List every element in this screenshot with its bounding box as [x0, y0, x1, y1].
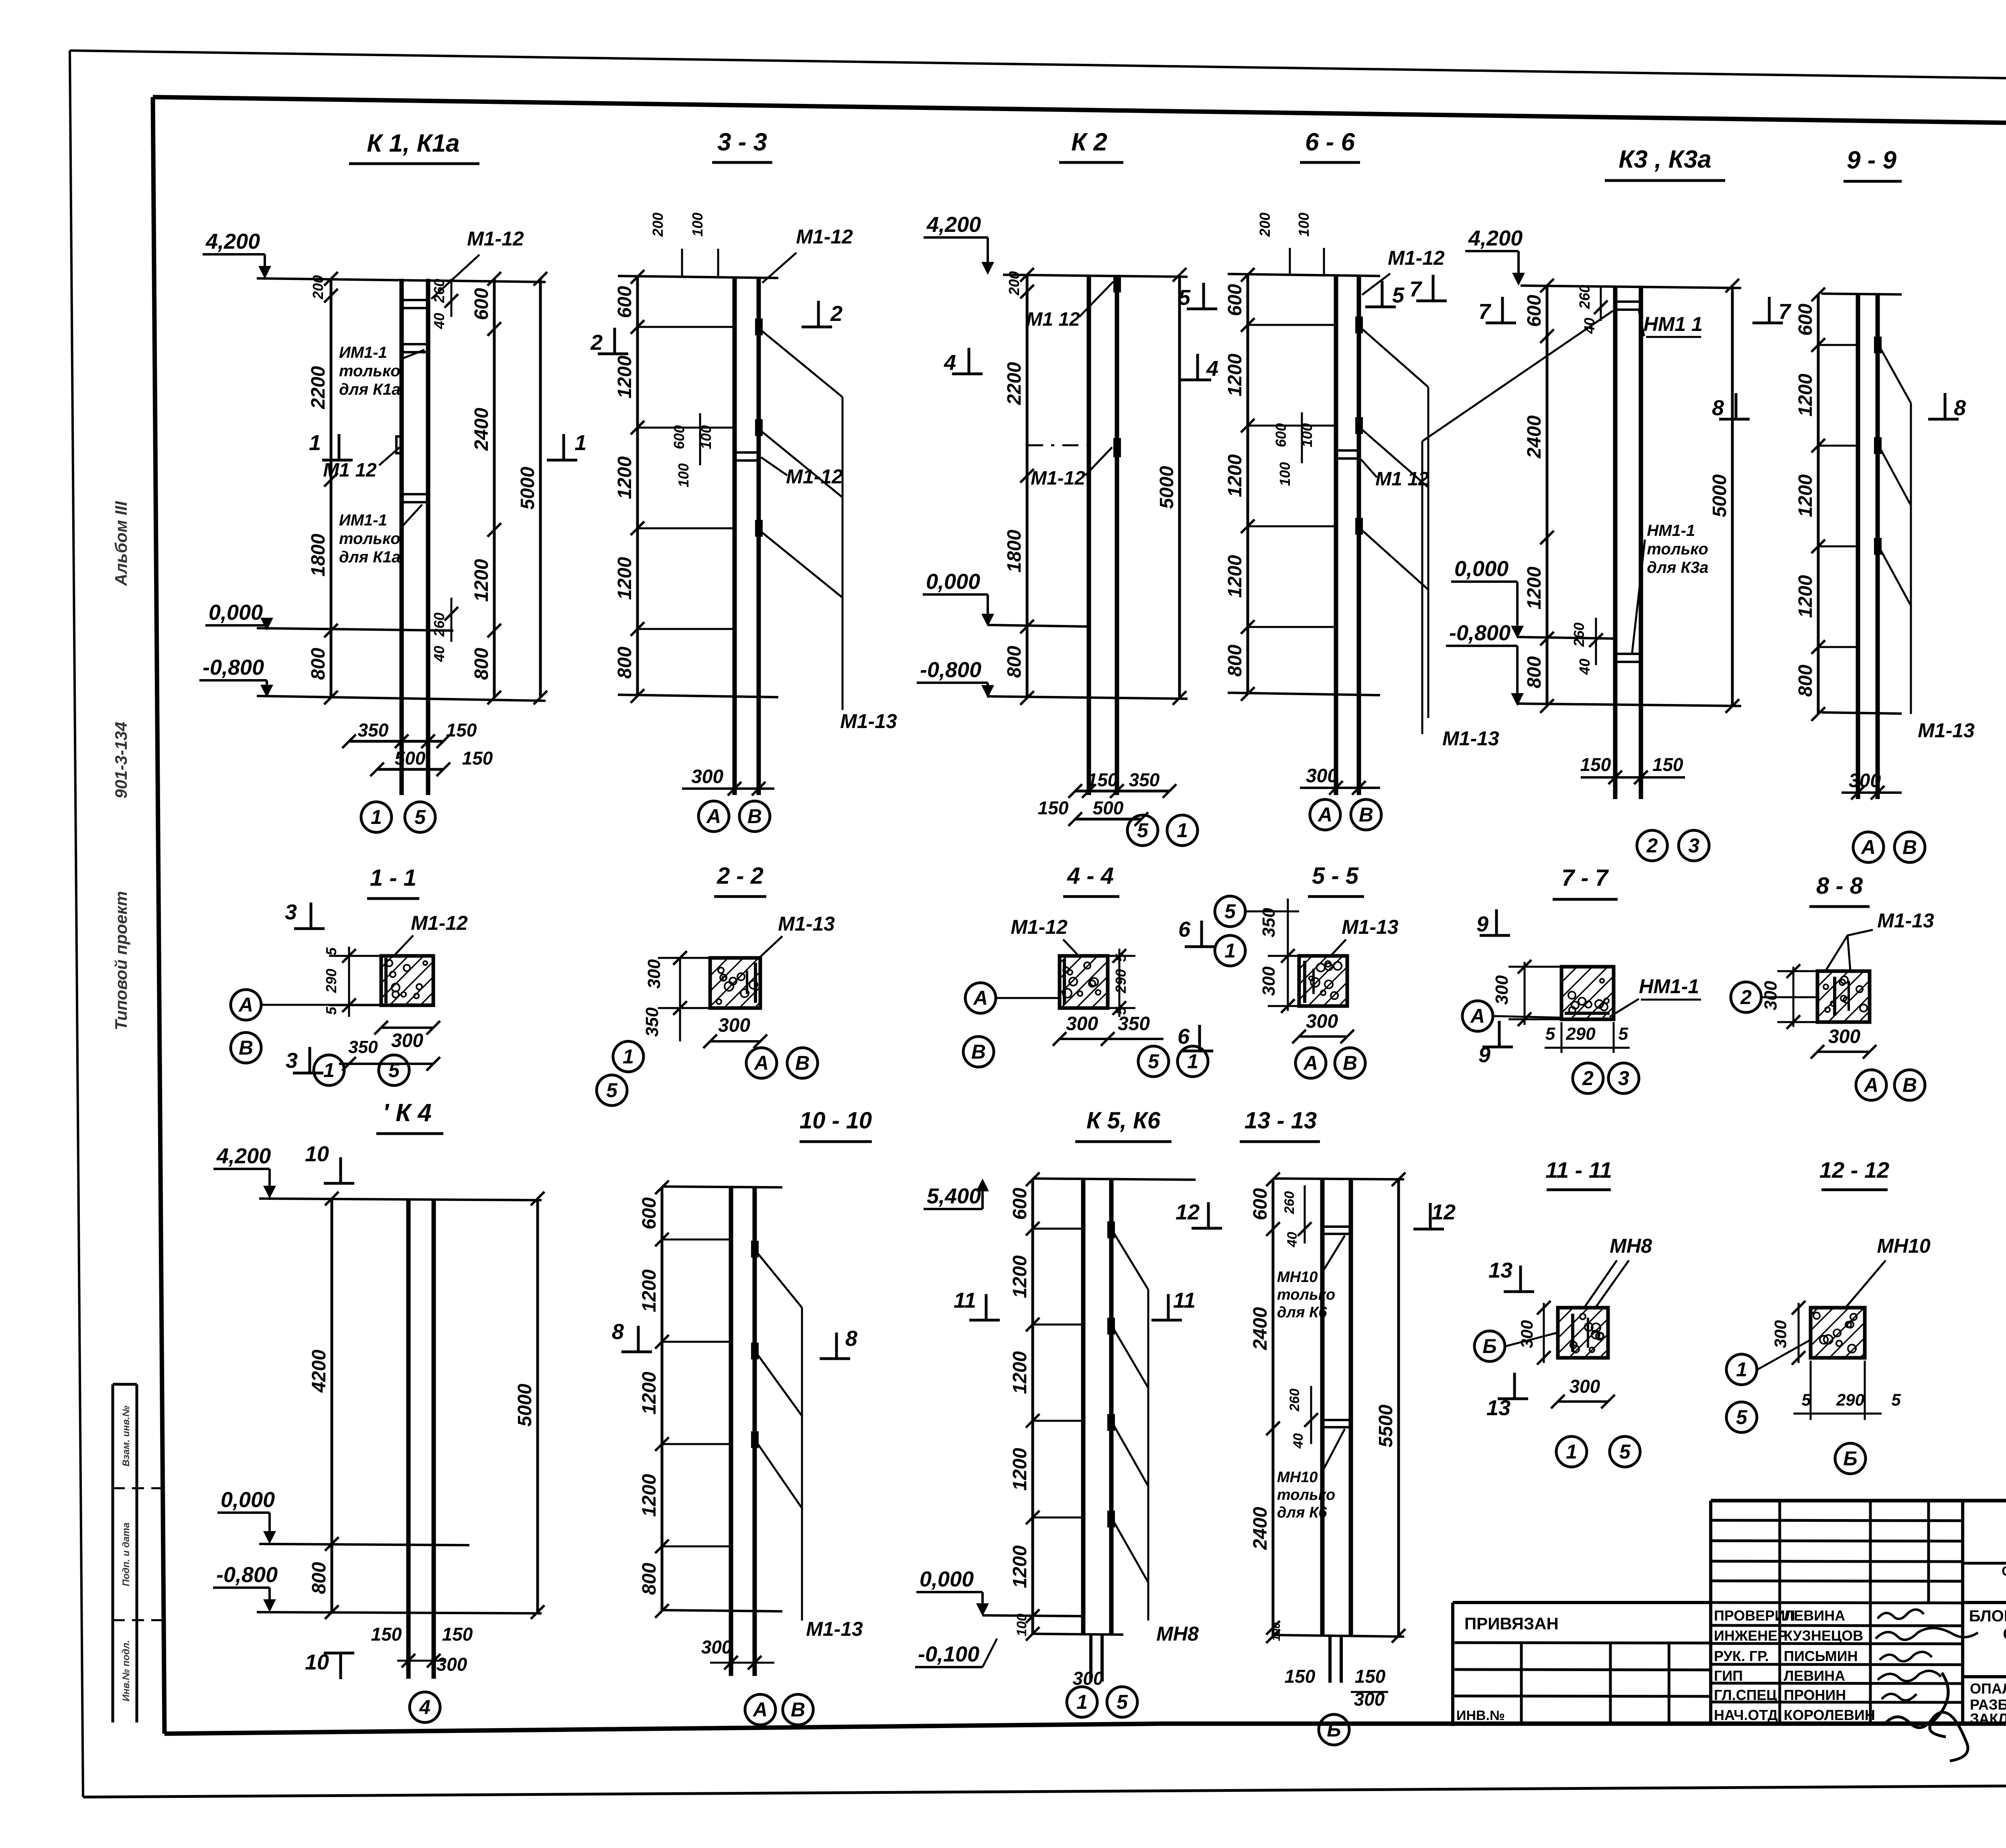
level line 0.000 — [1517, 637, 1615, 639]
svg-text:2: 2 — [1646, 834, 1658, 857]
svg-text:ПИСЬМИН: ПИСЬМИН — [1784, 1648, 1858, 1664]
axis circle B — [787, 1048, 818, 1078]
svg-text:1: 1 — [323, 1059, 335, 1081]
svg-text:3: 3 — [286, 1049, 298, 1073]
svg-text:Б: Б — [1327, 1718, 1341, 1741]
svg-text:ИМ1-1: ИМ1-1 — [339, 344, 387, 361]
left dimension line 13-13 — [1272, 1179, 1275, 1636]
left dimension line 3-3 — [636, 277, 639, 696]
svg-text:100: 100 — [1295, 213, 1312, 237]
axis circle B — [783, 1694, 813, 1725]
svg-text:-0,800: -0,800 — [203, 655, 264, 680]
svg-text:0,000: 0,000 — [209, 600, 263, 625]
svg-text:300: 300 — [718, 1015, 750, 1036]
svg-text:150: 150 — [1087, 769, 1118, 790]
svg-text:2400: 2400 — [471, 408, 492, 451]
level tie lines — [1033, 1228, 1083, 1230]
svg-text:600: 600 — [1250, 1188, 1271, 1220]
svg-text:12: 12 — [1431, 1200, 1456, 1224]
svg-text:200: 200 — [310, 275, 326, 300]
svg-text:260: 260 — [1282, 1191, 1297, 1215]
svg-text:2: 2 — [1582, 1067, 1594, 1089]
svg-text:600: 600 — [471, 288, 492, 320]
svg-text:КУЗНЕЦОВ: КУЗНЕЦОВ — [1784, 1627, 1863, 1644]
svg-text:-0,800: -0,800 — [1449, 621, 1511, 645]
svg-text:1800: 1800 — [1004, 529, 1025, 572]
bottom line — [1273, 1635, 1404, 1637]
svg-text:ИМ1-1: ИМ1-1 — [339, 511, 387, 529]
svg-text:М1-12: М1-12 — [786, 465, 843, 488]
axis circle 1 top — [1215, 935, 1245, 966]
svg-text:100: 100 — [689, 213, 706, 237]
svg-text:1200: 1200 — [614, 456, 636, 499]
plate MN10 top — [1322, 1225, 1351, 1228]
plate bracket on right face — [754, 963, 757, 1003]
svg-text:350: 350 — [1259, 908, 1279, 937]
project attribution block — [1451, 1603, 1454, 1726]
svg-text:12: 12 — [1176, 1200, 1200, 1224]
middle plate and small dims — [1336, 449, 1359, 452]
svg-text:НМ1-1: НМ1-1 — [1639, 975, 1699, 998]
svg-text:300: 300 — [391, 1030, 423, 1051]
left dimension line K2 — [1026, 275, 1029, 698]
axis circle B(cyr) — [1319, 1714, 1349, 1745]
axis circle 1 — [1556, 1436, 1587, 1467]
bottom line -0.800 — [257, 696, 546, 701]
svg-text:8 - 8: 8 - 8 — [1816, 873, 1863, 899]
middle plate and small dims — [735, 451, 759, 454]
axis circle 5 top — [1215, 896, 1245, 927]
svg-text:10: 10 — [305, 1142, 329, 1166]
svg-text:для К6: для К6 — [1277, 1504, 1327, 1521]
bottom line — [1821, 712, 1902, 714]
bottom dim 300 — [381, 1026, 433, 1029]
svg-text:4200: 4200 — [309, 1349, 330, 1393]
svg-text:2200: 2200 — [308, 366, 329, 409]
cross-section 12-12 — [1726, 1157, 1931, 1474]
plate MN10 middle — [1322, 1419, 1351, 1421]
svg-text:350: 350 — [1129, 769, 1160, 790]
svg-text:Подп. и дата: Подп. и дата — [121, 1523, 132, 1586]
svg-text:100: 100 — [675, 463, 692, 487]
hatched section square 1-1 — [381, 956, 433, 1005]
section view 9-9 elevation — [1712, 146, 1975, 862]
svg-text:5,400: 5,400 — [927, 1184, 981, 1208]
svg-text:600: 600 — [614, 286, 636, 318]
level tie lines — [638, 326, 735, 328]
svg-text:-0,800: -0,800 — [920, 658, 981, 682]
svg-text:-0,100: -0,100 — [918, 1642, 979, 1666]
bottom line -0.800 — [257, 1612, 542, 1613]
svg-text:200: 200 — [1257, 213, 1273, 237]
svg-text:300: 300 — [1828, 1026, 1860, 1047]
svg-text:800: 800 — [471, 648, 492, 680]
axis circle A — [698, 801, 729, 832]
cross-section 2-2 — [597, 863, 835, 1106]
column K1 shaft — [400, 279, 404, 795]
svg-text:300: 300 — [644, 959, 664, 989]
svg-text:150: 150 — [1580, 754, 1611, 775]
section view 13-13 elevation — [1240, 1108, 1456, 1745]
svg-text:13 - 13: 13 - 13 — [1245, 1108, 1317, 1134]
plates on right face — [752, 1242, 757, 1256]
left dimension line 9-9 — [1817, 294, 1820, 714]
axis circle A — [231, 990, 261, 1020]
middle plate — [1615, 653, 1641, 655]
svg-text:600: 600 — [1273, 423, 1289, 447]
svg-text:только: только — [339, 362, 400, 380]
axis circle B(cyr) — [1474, 1331, 1505, 1361]
svg-text:350: 350 — [642, 1007, 662, 1037]
svg-text:В: В — [971, 1041, 986, 1063]
svg-text:5500: 5500 — [1375, 1404, 1397, 1447]
svg-text:МН8: МН8 — [1156, 1623, 1199, 1645]
svg-text:для К3а: для К3а — [1647, 559, 1708, 576]
svg-text:М1-13: М1-13 — [806, 1618, 863, 1640]
plate line on left face — [384, 958, 388, 1003]
cross-section 7-7 — [1462, 865, 1701, 1093]
top line — [1228, 274, 1380, 276]
column 10-10 shaft — [729, 1187, 733, 1676]
svg-text:К 1, К1а: К 1, К1а — [367, 130, 459, 157]
svg-text:М1-13: М1-13 — [840, 710, 897, 732]
plate line on left face — [1063, 959, 1066, 1005]
axis circle 2 — [1637, 830, 1667, 861]
axis circle 1 — [1726, 1354, 1757, 1385]
column 9-9 shaft — [1856, 294, 1860, 799]
svg-text:5: 5 — [1117, 1691, 1128, 1713]
left dimension line K5,K6 — [1031, 1179, 1034, 1634]
svg-text:260: 260 — [1287, 1389, 1302, 1412]
svg-text:1: 1 — [371, 806, 382, 828]
axis circle B — [739, 801, 770, 832]
left dimension line K1 — [330, 279, 333, 698]
svg-text:11 - 11: 11 - 11 — [1545, 1157, 1612, 1183]
svg-text:3: 3 — [285, 900, 297, 924]
svg-text:' К 4: ' К 4 — [383, 1099, 432, 1127]
svg-text:150: 150 — [442, 1624, 473, 1645]
cross-section 5-5 — [1215, 863, 1399, 1078]
hatched section square 8-8 — [1817, 971, 1870, 1022]
svg-text:11: 11 — [1173, 1288, 1196, 1312]
svg-text:5000: 5000 — [1156, 466, 1178, 509]
svg-text:4,200: 4,200 — [216, 1144, 271, 1168]
svg-text:К 2: К 2 — [1071, 128, 1107, 156]
svg-text:для К1а: для К1а — [339, 381, 400, 398]
svg-text:1200: 1200 — [1795, 575, 1816, 618]
plate NM1-1 on bottom face — [1565, 1012, 1610, 1015]
svg-text:7 - 7: 7 - 7 — [1561, 865, 1609, 891]
margin stamp box — [113, 1384, 162, 1722]
svg-text:600: 600 — [1795, 304, 1816, 336]
plate M1 12 middle on left face — [396, 436, 402, 453]
svg-text:7: 7 — [1409, 277, 1423, 301]
svg-text:2400: 2400 — [1250, 1307, 1271, 1350]
axis circle A — [1462, 1001, 1493, 1031]
svg-text:1: 1 — [1187, 1050, 1198, 1073]
svg-text:2400: 2400 — [1250, 1507, 1271, 1550]
svg-text:100: 100 — [1270, 1622, 1282, 1641]
axis circle 3 — [1608, 1063, 1639, 1093]
svg-text:5: 5 — [1148, 1050, 1159, 1073]
svg-text:А: А — [706, 805, 721, 828]
svg-text:А: А — [238, 994, 253, 1016]
svg-text:0,000: 0,000 — [1454, 557, 1509, 581]
svg-text:С НАСОСНОЙ СТАНЦИЕЙ: С НАСОСНОЙ СТАНЦИЕЙ — [2003, 1625, 2006, 1643]
level tie lines — [1248, 324, 1336, 326]
svg-text:-0,800: -0,800 — [216, 1563, 278, 1587]
plate bracket inside — [1571, 1314, 1574, 1352]
hatched section square 2-2 — [710, 958, 760, 1008]
svg-text:8: 8 — [1712, 396, 1724, 420]
svg-text:40: 40 — [431, 646, 447, 662]
svg-text:500: 500 — [395, 748, 426, 769]
svg-text:ГИП: ГИП — [1714, 1667, 1743, 1684]
svg-text:БЛОК СЛУЖЕБНЫХ ПОМЕЩЕНИЙ: БЛОК СЛУЖЕБНЫХ ПОМЕЩЕНИЙ — [1969, 1607, 2006, 1625]
axis circle 1 — [314, 1055, 344, 1085]
leader lines to M1-13 — [758, 1254, 802, 1308]
leader M1-13 to bottom left — [1422, 311, 1613, 441]
svg-text:М1-13: М1-13 — [1918, 719, 1975, 742]
svg-text:300: 300 — [1517, 1320, 1536, 1348]
svg-text:600: 600 — [671, 425, 687, 449]
svg-text:1800: 1800 — [308, 534, 329, 576]
svg-text:Инв.№ подл.: Инв.№ подл. — [121, 1640, 132, 1702]
svg-text:В: В — [795, 1052, 810, 1074]
svg-text:МН10: МН10 — [1277, 1469, 1318, 1486]
svg-text:6 - 6: 6 - 6 — [1305, 128, 1355, 156]
svg-text:2 - 2: 2 - 2 — [717, 863, 763, 889]
axis circle B — [1351, 799, 1381, 830]
svg-text:9 - 9: 9 - 9 — [1847, 146, 1897, 174]
svg-text:0,000: 0,000 — [221, 1488, 275, 1512]
svg-text:А: А — [1317, 803, 1332, 826]
svg-text:М1-12: М1-12 — [1011, 916, 1068, 938]
svg-text:Альбом III: Альбом III — [112, 501, 130, 586]
svg-text:ЗАКЛАДНЫХ ДЕТАЛЕЙ.: ЗАКЛАДНЫХ ДЕТАЛЕЙ. — [1970, 1710, 2006, 1727]
svg-text:3: 3 — [1688, 834, 1699, 857]
svg-text:500: 500 — [1093, 797, 1124, 818]
top line — [618, 276, 778, 278]
section view 10-10 elevation — [612, 1108, 872, 1725]
bottom line -0.800 — [1517, 704, 1741, 706]
footing lines — [1328, 1636, 1332, 1683]
svg-text:5: 5 — [1137, 819, 1149, 842]
svg-text:МН10: МН10 — [1277, 1269, 1318, 1286]
svg-text:4: 4 — [419, 1696, 430, 1718]
plate M1 12 top — [1115, 276, 1120, 291]
svg-text:МН8: МН8 — [1610, 1235, 1652, 1257]
right overall dimension 5000 — [536, 1199, 539, 1612]
column K1,K1a elevation — [199, 130, 628, 832]
svg-text:5: 5 — [388, 1059, 400, 1081]
svg-text:1: 1 — [1177, 819, 1188, 842]
top line — [1003, 275, 1188, 277]
svg-text:300: 300 — [1849, 770, 1881, 791]
axis circle B — [963, 1037, 994, 1067]
svg-text:2: 2 — [1740, 986, 1752, 1008]
svg-text:200: 200 — [1006, 271, 1022, 296]
axis circle 2 — [1731, 982, 1761, 1012]
svg-text:НМ1 1: НМ1 1 — [1643, 313, 1702, 335]
top line — [1521, 286, 1741, 288]
svg-text:300: 300 — [1073, 1668, 1104, 1689]
svg-text:12 - 12: 12 - 12 — [1819, 1157, 1889, 1183]
svg-text:В: В — [1902, 1074, 1917, 1096]
svg-text:СТАНЦИЯ ОЧИСТКИ ВОДЫ ПОВЕРХНОС: СТАНЦИЯ ОЧИСТКИ ВОДЫ ПОВЕРХНОСТНЫХ ИСТОЧ… — [2002, 1564, 2006, 1578]
svg-text:11: 11 — [954, 1288, 976, 1312]
svg-text:290: 290 — [1565, 1024, 1596, 1044]
axis circle 4 — [410, 1692, 440, 1722]
axis circle 5 — [1107, 1687, 1137, 1717]
svg-text:только: только — [1277, 1487, 1335, 1503]
svg-text:10 - 10: 10 - 10 — [800, 1108, 872, 1134]
svg-text:800: 800 — [639, 1563, 660, 1595]
column K2 shaft — [1087, 275, 1091, 795]
plate bracket on left face — [1303, 961, 1306, 1003]
top line — [259, 1199, 542, 1200]
svg-text:150: 150 — [446, 720, 477, 740]
cross-section 11-11 — [1474, 1157, 1652, 1467]
svg-text:1 - 1: 1 - 1 — [370, 865, 416, 891]
column K4 elevation — [213, 1099, 544, 1722]
svg-text:В: В — [1359, 803, 1373, 826]
svg-text:1200: 1200 — [1009, 1351, 1031, 1394]
svg-text:В: В — [791, 1698, 805, 1721]
right overall dimension 5000 — [1178, 275, 1181, 698]
svg-text:ИНЖЕНЕР: ИНЖЕНЕР — [1714, 1627, 1787, 1644]
upper small grid — [1711, 1501, 1963, 1501]
svg-text:А: А — [752, 1698, 767, 1721]
axis circle B(cyr) — [1835, 1443, 1866, 1474]
svg-text:4: 4 — [944, 351, 956, 375]
svg-text:290: 290 — [323, 969, 339, 993]
svg-text:5000: 5000 — [517, 467, 538, 509]
hatched section square 4-4 — [1060, 956, 1108, 1008]
svg-text:200: 200 — [650, 213, 666, 237]
title block — [1453, 1501, 2006, 1761]
level tie lines — [662, 1239, 731, 1241]
svg-text:1: 1 — [309, 431, 321, 455]
svg-text:В: В — [747, 805, 762, 828]
svg-text:А: А — [973, 987, 988, 1009]
svg-text:1200: 1200 — [639, 1474, 660, 1517]
small dim 260/40 top — [451, 279, 453, 317]
svg-text:1200: 1200 — [1009, 1545, 1031, 1588]
svg-text:1200: 1200 — [1009, 1255, 1031, 1298]
axis circle 3 — [1679, 830, 1709, 861]
axis circle 5 — [405, 802, 435, 832]
svg-text:1200: 1200 — [639, 1371, 660, 1414]
svg-text:5: 5 — [1178, 286, 1191, 310]
svg-text:А: А — [1863, 1074, 1878, 1096]
svg-text:М1-12: М1-12 — [1031, 468, 1085, 489]
svg-text:ПРИВЯЗАН: ПРИВЯЗАН — [1464, 1614, 1559, 1633]
svg-text:Б: Б — [1843, 1447, 1857, 1470]
svg-text:800: 800 — [1224, 645, 1246, 677]
svg-text:К 5, К6: К 5, К6 — [1086, 1108, 1161, 1134]
axis circle 1 — [613, 1041, 644, 1072]
svg-text:5000: 5000 — [514, 1383, 536, 1426]
svg-text:40: 40 — [1291, 1433, 1306, 1449]
svg-text:1: 1 — [1566, 1440, 1577, 1463]
svg-text:260: 260 — [1571, 623, 1587, 647]
svg-text:40: 40 — [431, 313, 447, 329]
svg-text:2200: 2200 — [1004, 362, 1025, 405]
svg-text:5: 5 — [414, 806, 426, 828]
svg-text:ПРОНИН: ПРОНИН — [1784, 1687, 1846, 1703]
svg-text:В: В — [239, 1037, 253, 1059]
plate M1-12 middle — [1115, 439, 1120, 456]
top line +4.200 — [257, 278, 546, 282]
level line 0.000 — [983, 1615, 1083, 1616]
axis circle B — [1335, 1048, 1365, 1078]
cross-section 4-4 — [963, 863, 1215, 1077]
level line 0.000 — [259, 1544, 469, 1545]
svg-text:3 - 3: 3 - 3 — [717, 128, 767, 156]
hatched section square 5-5 — [1299, 956, 1347, 1006]
axis circle 5 — [1610, 1436, 1640, 1467]
svg-text:300: 300 — [701, 1637, 732, 1657]
level line 0.000 — [257, 628, 453, 631]
svg-text:100: 100 — [1014, 1614, 1029, 1637]
cross-section 8-8 — [1731, 873, 1934, 1100]
svg-text:1: 1 — [1076, 1691, 1088, 1713]
svg-text:300: 300 — [1066, 1013, 1098, 1035]
svg-text:800: 800 — [1795, 665, 1816, 697]
svg-text:ГЛ.СПЕЦ: ГЛ.СПЕЦ — [1714, 1687, 1777, 1703]
hatched section square 11-11 — [1558, 1308, 1608, 1358]
svg-text:300: 300 — [1761, 981, 1781, 1010]
axis circle 5 — [379, 1055, 409, 1085]
svg-text:150: 150 — [371, 1624, 402, 1645]
section view 6-6 elevation — [1224, 128, 1447, 830]
svg-text:40: 40 — [1285, 1232, 1300, 1248]
svg-text:М1-12: М1-12 — [411, 912, 468, 934]
svg-text:1200: 1200 — [1224, 353, 1246, 396]
svg-text:МН10: МН10 — [1877, 1235, 1931, 1257]
right dimension line K1 segments — [493, 279, 496, 698]
signature squiggles — [1878, 1609, 1924, 1619]
column K5,K6 elevation — [915, 1108, 1222, 1717]
svg-text:260: 260 — [1576, 285, 1593, 309]
svg-text:4,200: 4,200 — [205, 229, 260, 254]
axis circle 1 — [1067, 1687, 1097, 1717]
leader lines to M1-13 — [1362, 329, 1428, 387]
svg-text:1: 1 — [1736, 1358, 1747, 1381]
svg-text:А: А — [1860, 836, 1876, 858]
svg-text:4 - 4: 4 - 4 — [1067, 863, 1114, 889]
svg-text:2400: 2400 — [1524, 415, 1545, 458]
svg-text:600: 600 — [1224, 284, 1246, 316]
svg-text:5: 5 — [1618, 1024, 1628, 1044]
svg-text:ЛЕВИНА: ЛЕВИНА — [1784, 1667, 1845, 1684]
right overall dimension 5000 — [1731, 286, 1734, 706]
svg-text:800: 800 — [309, 1562, 330, 1594]
svg-text:ЛЕВИНА: ЛЕВИНА — [1784, 1607, 1845, 1624]
svg-text:0,000: 0,000 — [920, 1567, 974, 1591]
svg-text:40: 40 — [1576, 659, 1593, 675]
hatched section square 12-12 — [1811, 1308, 1865, 1358]
left dimension line 10-10 — [661, 1187, 664, 1611]
svg-text:А: А — [1470, 1005, 1485, 1027]
axis circle A — [745, 1694, 776, 1725]
svg-text:1200: 1200 — [1795, 474, 1816, 517]
svg-text:6: 6 — [1178, 1024, 1190, 1049]
svg-text:В: В — [1343, 1052, 1357, 1074]
leader lines to M1-13 — [762, 331, 843, 397]
svg-text:350: 350 — [358, 720, 389, 740]
